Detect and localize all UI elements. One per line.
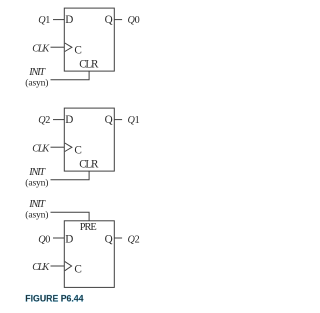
- svg-text:D: D: [65, 233, 73, 245]
- svg-text:0: 0: [135, 15, 140, 26]
- svg-text:CLK: CLK: [32, 43, 50, 54]
- svg-text:2: 2: [135, 234, 140, 245]
- svg-text:D: D: [65, 114, 73, 126]
- svg-text:Q: Q: [105, 114, 113, 126]
- svg-text:C: C: [74, 263, 81, 275]
- svg-text:CLK: CLK: [32, 143, 50, 154]
- svg-text:C: C: [74, 145, 81, 157]
- svg-text:(asyn): (asyn): [25, 178, 48, 189]
- svg-text:(asyn): (asyn): [25, 78, 48, 89]
- svg-text:Q: Q: [105, 233, 113, 245]
- svg-text:1: 1: [45, 15, 50, 26]
- svg-text:D: D: [65, 14, 73, 26]
- svg-text:C: C: [74, 45, 81, 57]
- svg-text:Q: Q: [105, 14, 113, 26]
- svg-text:2: 2: [45, 115, 50, 126]
- svg-text:CLK: CLK: [32, 262, 50, 273]
- svg-text:CLR: CLR: [79, 158, 99, 170]
- svg-text:0: 0: [45, 234, 50, 245]
- svg-text:CLR: CLR: [79, 58, 99, 70]
- svg-text:FIGURE P6.44: FIGURE P6.44: [25, 293, 84, 304]
- svg-text:(asyn): (asyn): [25, 210, 48, 221]
- svg-text:PRE: PRE: [80, 222, 97, 233]
- svg-text:1: 1: [135, 115, 140, 126]
